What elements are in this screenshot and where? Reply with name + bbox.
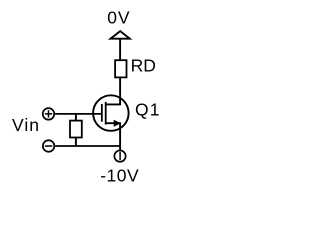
Q1 source wire with corner down to bottom rail bbox=[106, 123, 120, 146]
terminal + (Vin positive) bbox=[43, 108, 55, 120]
wire bottom rail bbox=[55, 145, 120, 147]
svg-text:0V: 0V bbox=[107, 7, 130, 27]
wire RD to Q1 drain bbox=[106, 77, 120, 104]
resistor RD bbox=[115, 60, 126, 77]
wire stub to input resistor bbox=[75, 114, 77, 121]
wire gate lead bbox=[55, 113, 102, 115]
terminal - (Vin negative) bbox=[43, 140, 55, 152]
power symbol 0V (up triangle) bbox=[111, 31, 130, 39]
wire stub from input resistor bbox=[75, 138, 77, 147]
svg-text:-10V: -10V bbox=[100, 166, 139, 186]
Q1 channel bar bbox=[105, 102, 107, 125]
wire junction down to -10V terminal bbox=[119, 146, 121, 150]
input resistor (across Vin) bbox=[70, 121, 82, 138]
svg-text:RD: RD bbox=[131, 56, 156, 76]
Q1 gate bar bbox=[101, 104, 103, 122]
transistor Q1 (MOSFET) body circle bbox=[93, 95, 129, 131]
Q1 source arrowhead bbox=[114, 120, 121, 127]
terminal -10V (circle with bar) bbox=[114, 150, 125, 161]
wire triangle to RD bbox=[119, 39, 121, 60]
svg-text:Q1: Q1 bbox=[135, 100, 161, 120]
svg-text:Vin: Vin bbox=[12, 115, 40, 135]
